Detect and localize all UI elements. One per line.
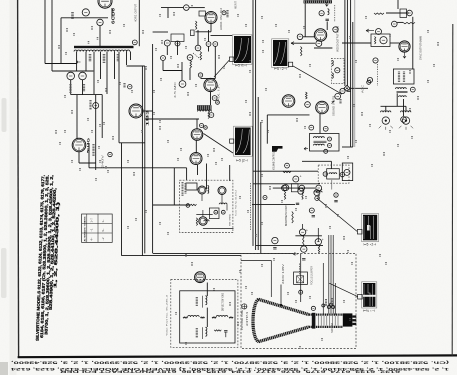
anode connection dot	[280, 304, 283, 307]
node AF junction	[285, 163, 290, 168]
video amp V4 6AW8 pentode	[314, 29, 326, 41]
mixer V2 tuner	[218, 187, 226, 195]
CRT pin terminal c	[330, 303, 333, 306]
cap C73 plus	[299, 229, 305, 235]
speaker SP2 voice coil	[401, 111, 411, 112]
video cathode node	[316, 41, 322, 47]
svg-text:VIDEO OUTPUT 6AW8: VIDEO OUTPUT 6AW8	[336, 26, 340, 52]
photo frame W4	[362, 214, 379, 242]
capacitor C35	[347, 90, 350, 91]
transformer T3 core line a	[314, 140, 327, 142]
wire sound box top	[267, 114, 309, 116]
wire sound takeoff	[189, 68, 191, 80]
waveform photo W4 vert blanking	[363, 215, 377, 241]
coil L9 winding	[198, 110, 212, 111]
wire yoke return	[122, 255, 242, 257]
node video out	[340, 88, 345, 93]
wire speaker feed drop	[396, 93, 398, 106]
label HV winding	[117, 54, 120, 62]
vert deflection coil L14	[205, 296, 207, 305]
tuner coil L3	[204, 220, 209, 221]
audio takeoff node	[335, 93, 341, 99]
svg-text:HORIZ. OUTPUT: HORIZ. OUTPUT	[134, 4, 138, 22]
stabilizer box Z1	[199, 11, 205, 16]
T4 side terminal	[410, 87, 415, 92]
callout tag W1	[229, 57, 233, 61]
T3 terminal top2	[323, 126, 328, 131]
tuner test pad c	[186, 204, 190, 208]
label under screen c	[318, 192, 320, 199]
node test point TP1	[164, 40, 170, 46]
wire HV to 1B3	[143, 110, 153, 112]
svg-text:VOLUME CONTROL: VOLUME CONTROL	[273, 152, 276, 170]
callout tag W3	[230, 139, 234, 143]
resistor R52	[403, 22, 415, 23]
wire T1 tap c	[93, 52, 95, 95]
wire mixer feed	[229, 165, 231, 181]
width coil L12 core	[197, 105, 212, 110]
node 135V	[309, 208, 314, 213]
bus wire sync 1	[350, 0, 352, 147]
node TP5	[213, 42, 218, 47]
label 117VAC	[69, 84, 71, 93]
video in node	[297, 34, 303, 40]
wire section joint	[127, 65, 145, 67]
CRT pin terminal a	[322, 304, 325, 307]
node TP2	[161, 56, 166, 61]
wire 5U4 cathode	[78, 152, 80, 163]
wire CRT pin g2	[322, 263, 324, 315]
label 6.3V winding	[89, 54, 92, 62]
CRT pin labels b	[331, 298, 333, 305]
power transformer T1 secondary winding	[74, 50, 130, 52]
dashed boost link	[334, 5, 336, 22]
bus wire AGC	[257, 97, 259, 250]
wire R52 link	[397, 21, 403, 23]
wire yoke center	[206, 308, 208, 327]
leader line W5	[329, 283, 357, 296]
RF amp V1 tuner triode	[198, 186, 206, 194]
photo W4 white gap	[367, 225, 370, 231]
wire rect drop left	[76, 95, 78, 139]
svg-text:FINE TUNING: FINE TUNING	[229, 214, 231, 226]
picture tube V14 24TP4 bell	[253, 299, 259, 341]
capacitor C71	[334, 200, 337, 201]
terminal lug T1-1	[132, 40, 137, 45]
cap C76	[301, 246, 307, 252]
svg-text:BRIGHTNESS CONT.: BRIGHTNESS CONT.	[285, 205, 288, 226]
node screen c	[316, 185, 322, 191]
cap C75	[315, 239, 321, 245]
table grid	[82, 214, 113, 242]
tuner trimmer box	[209, 208, 219, 219]
wire sync plate	[412, 17, 414, 69]
wire speaker a lead	[385, 106, 387, 111]
wire osc plate	[210, 24, 212, 32]
wire T1 tap i	[130, 52, 132, 61]
wire T1 tap g	[118, 52, 120, 143]
node spark gap	[263, 196, 267, 200]
capacitor C72	[312, 216, 315, 217]
wire yoke bus	[180, 316, 235, 318]
svg-text:SOUND I.F. 6T8: SOUND I.F. 6T8	[332, 95, 336, 116]
wire heater run	[52, 70, 93, 72]
picture tube ion trap magnet	[312, 313, 316, 329]
wire osc grid lead b	[189, 7, 205, 9]
sync node c	[407, 10, 413, 16]
tuner label rf	[185, 183, 187, 194]
damping resistor R73	[212, 317, 216, 318]
resistor R67	[318, 245, 319, 253]
waveform photo W3 vert output	[235, 128, 251, 156]
svg-text:⊢5 (2⊣: ⊢5 (2⊣	[236, 158, 248, 162]
wire AGC line	[350, 87, 368, 89]
capacitor C79	[302, 259, 305, 260]
keyer terminal	[335, 68, 340, 73]
video IF amp V5 6U8	[204, 78, 217, 91]
page border left edge	[18, 0, 19, 357]
rectifier V10 5U4G	[72, 138, 86, 152]
wire damper plate	[196, 119, 198, 129]
wire audio B+	[253, 183, 320, 185]
sound grid node	[305, 102, 311, 108]
picture tube grid cap	[311, 306, 315, 310]
svg-text:HORIZ. OSC. 6C4: HORIZ. OSC. 6C4	[219, 7, 223, 30]
CRT enclosure inner line	[241, 259, 271, 261]
damping resistor R72	[200, 317, 204, 318]
keyer winding b	[332, 73, 333, 78]
wire rect drop right	[95, 95, 97, 170]
focus jumper X mark	[297, 276, 304, 283]
tuner resistor R3	[196, 218, 197, 226]
yoke inner box	[180, 291, 235, 343]
ultor terminal	[299, 290, 303, 294]
electrolytic C62	[283, 185, 289, 191]
tuner wire f	[203, 228, 234, 230]
label V LOW	[92, 144, 94, 156]
wire diagonal to sound takeoff	[204, 134, 234, 154]
picture tube base pin 2	[352, 319, 356, 321]
picture tube base pin 1	[352, 315, 356, 317]
photo frame W2	[272, 39, 289, 68]
wire sync link 2	[390, 42, 400, 44]
label 240V	[89, 100, 91, 110]
wire T1 tap h	[126, 52, 128, 66]
trimmer C21	[175, 41, 180, 46]
wire CRT focus	[334, 283, 336, 315]
capacitor C30	[326, 19, 329, 20]
wire HV bus	[152, 44, 154, 253]
picture tube neck bottom	[309, 326, 343, 328]
wire T3 feed	[319, 114, 321, 134]
width coil L16	[205, 327, 207, 336]
svg-text:⊢5 ½⊣: ⊢5 ½⊣	[235, 64, 247, 68]
wire CRT pin k	[330, 235, 332, 315]
wire sync dotted	[377, 64, 379, 86]
svg-text:240V: 240V	[101, 154, 105, 168]
node vert in	[108, 152, 112, 156]
wire tp2 lead	[162, 61, 164, 71]
wire 5U4 side drop	[88, 143, 90, 168]
svg-text:6CD6: 6CD6	[111, 7, 116, 24]
arrow audio takeoff	[332, 101, 335, 104]
svg-text:+: +	[306, 228, 308, 232]
wire boost drop right	[317, 228, 319, 242]
noise inv resistor	[375, 37, 376, 45]
resistor box R53	[400, 9, 407, 18]
wire tp4 lead	[208, 47, 210, 52]
svg-text:AGC: AGC	[361, 85, 365, 93]
T4 core line b	[397, 92, 408, 94]
resistor R14	[196, 21, 197, 29]
tuner label ant	[182, 182, 184, 196]
tuner wire d	[196, 214, 212, 216]
transformer T3 core line b	[314, 142, 327, 144]
bus wire sync 3 grey	[354, 0, 356, 147]
quad detector dashed enclosure	[318, 165, 349, 183]
svg-text:+: +	[300, 174, 302, 178]
photo frame W5	[362, 282, 377, 308]
leader line W2 to sync	[293, 66, 342, 94]
bus wire video 1	[344, 0, 346, 86]
wire plate lead video	[326, 22, 328, 31]
wire vert out drop	[206, 283, 208, 297]
node 6C4 aux	[222, 11, 226, 15]
tuner wire a	[201, 194, 203, 201]
svg-text:PIX. I.F.: PIX. I.F.	[217, 84, 221, 102]
T4 core line a	[397, 90, 408, 92]
wire damper cathode	[195, 140, 197, 152]
wire grid row	[201, 78, 216, 80]
wire video to CRT	[197, 165, 199, 175]
resistor R62	[302, 191, 303, 199]
yoke coil core a	[202, 296, 204, 308]
wire bus to focus	[256, 245, 323, 247]
wire if row	[163, 70, 182, 72]
focus jumper inner box	[297, 276, 304, 283]
T3 terminal top	[309, 125, 314, 130]
node screen a	[282, 185, 288, 191]
capacitor C72b	[296, 203, 299, 204]
wire osc feed	[206, 164, 208, 190]
sync node a	[373, 58, 378, 63]
wire speaker b lead	[405, 106, 407, 111]
wire 5U4 out	[79, 162, 96, 164]
wire cap C81 lead	[225, 332, 227, 337]
T4 text line a	[398, 72, 400, 83]
wire det drop	[181, 62, 183, 80]
photo frame W3	[234, 126, 253, 156]
tuner wire b	[221, 195, 223, 205]
CRT socket drive V13	[190, 153, 202, 165]
picture tube base pin 3	[352, 323, 356, 325]
damper V12 6W4 (a)	[191, 129, 203, 141]
speaker SP1 voice coil	[381, 111, 391, 112]
wire cathode row	[314, 47, 332, 49]
capacitor C81	[224, 331, 227, 332]
sync node b	[367, 77, 372, 82]
fuse F1	[82, 9, 89, 16]
CRT pin terminal b	[327, 306, 330, 309]
wire bright feed	[252, 203, 295, 205]
quad coil L11	[329, 173, 337, 174]
cap C77	[200, 124, 204, 128]
arrow sync input	[366, 29, 374, 32]
yoke coil core b	[202, 327, 204, 339]
callout tag W2	[288, 62, 292, 66]
section divider wire b	[144, 66, 146, 253]
node disc	[315, 196, 319, 200]
svg-text:Yoke Part No. 95-236-3: Yoke Part No. 95-236-3	[165, 293, 168, 336]
quad terminal	[323, 172, 327, 176]
svg-text:⊢5 ⋆2⊣: ⊢5 ⋆2⊣	[274, 67, 287, 71]
T3 terminal side a	[328, 137, 332, 141]
tuner resistor R2	[189, 204, 197, 205]
phase coil L13	[399, 96, 407, 97]
svg-text:528 TK8: 528 TK8	[330, 322, 334, 332]
volume control R45 pot	[272, 146, 283, 152]
wire sound box left	[266, 115, 268, 144]
terminal HV lug 3	[209, 113, 214, 118]
peaking coil L6 winding	[328, 9, 330, 15]
resistor R66	[303, 236, 304, 247]
tuner wire c	[202, 210, 204, 216]
wire AC line	[61, 17, 108, 19]
wire boost line	[145, 118, 199, 120]
electrolytic C61 plus	[293, 176, 299, 182]
CRT pin labels	[325, 299, 327, 306]
CRT enclosure inner vertical	[270, 260, 272, 297]
svg-text:DEFLECTION YOKE: DEFLECTION YOKE	[222, 293, 224, 311]
keyer winding a	[332, 61, 333, 66]
contrast resistor R32	[301, 47, 302, 56]
wire IF bus top	[153, 31, 168, 33]
node video right	[333, 27, 338, 32]
wire AC drop	[60, 18, 62, 64]
brightness pot R65	[292, 212, 294, 224]
waveform photo W5 horiz blanking	[363, 283, 375, 307]
wire sync top	[386, 12, 409, 14]
node filament tap	[128, 85, 132, 89]
node TP4	[206, 42, 211, 47]
resistor R51	[374, 13, 384, 14]
page border right edge	[451, 24, 454, 356]
audio output transformer T4 box	[393, 69, 414, 84]
section divider wire a	[141, 66, 143, 256]
oscillator V3 tuner	[199, 217, 207, 225]
wire osc grid lead	[161, 7, 183, 9]
sound demod V7 6T8	[316, 101, 329, 114]
table cell marks	[90, 218, 106, 241]
svg-text:1–7: 1–7	[90, 218, 94, 223]
waveform photo W1 vert osc	[234, 36, 251, 63]
damping resistor R71	[183, 317, 188, 318]
tuner coil L1 antenna	[208, 186, 209, 194]
tuner pad a	[214, 210, 218, 214]
node boost	[334, 193, 338, 197]
wire quad feed	[302, 160, 331, 162]
CRT dashed enclosure	[241, 253, 356, 348]
cap C74	[272, 237, 278, 243]
node 240V	[93, 103, 99, 109]
resistor box R64	[291, 184, 298, 192]
resistor R21 4.7K	[200, 52, 202, 61]
wire T1 tap f	[114, 52, 116, 80]
photo frame W1	[232, 35, 252, 65]
wire CRT pin h1	[332, 235, 334, 315]
callout tag W5	[358, 294, 363, 299]
label WIDTH	[196, 328, 198, 338]
tuner coil L2	[219, 203, 227, 204]
wire CRT pin g1	[328, 235, 330, 315]
wire bias drop	[302, 224, 304, 229]
wire T1 tap d	[100, 52, 102, 80]
wire speaker feed	[381, 105, 407, 107]
wire horiz drive	[138, 0, 140, 46]
node screen b	[299, 185, 305, 191]
photo W5 white gap	[363, 295, 375, 297]
node grid stop	[187, 55, 193, 61]
waveform photo W2 horiz osc	[273, 40, 287, 66]
svg-text:6132, 6133, 6174, 6175, 6176,: 6132, 6133, 6174, 6175, 6176, 6177, 6184…	[60, 370, 400, 375]
svg-text:⊢½ ⋆⊣: ⊢½ ⋆⊣	[363, 309, 375, 313]
arrow T3 left	[304, 147, 308, 150]
wire osc to waveform	[211, 35, 233, 37]
picture tube base connector	[343, 313, 353, 326]
discriminator coil L10	[314, 191, 322, 192]
T3 terminal bottom	[324, 149, 328, 153]
leader line W1 to 6U8	[214, 60, 229, 77]
node osc grid	[184, 5, 190, 11]
wire quad out grey	[331, 180, 333, 190]
arrow dashed adjust	[193, 53, 199, 58]
wire phase coil	[403, 99, 405, 116]
wire focus line	[153, 252, 293, 254]
tuner shield dashed box	[180, 180, 233, 232]
label 73.5	[123, 83, 125, 88]
svg-text:(Ch. 528.38100, 1, 2, 528.3860: (Ch. 528.38100, 1, 2, 528.38600, 1, 2, 3…	[11, 361, 449, 366]
wire T1 tap e	[106, 52, 108, 95]
bus wire heater	[260, 122, 262, 253]
callout tag W4	[357, 229, 362, 234]
shield dashed box keyer	[331, 58, 344, 83]
wire focus dashed	[299, 264, 301, 276]
label 5V winding	[103, 54, 106, 63]
convergence jumper box	[342, 163, 352, 181]
picture tube bottom funnel band	[259, 327, 309, 342]
pilot terminal A	[67, 72, 75, 80]
peaking coil tap	[319, 11, 324, 16]
terminal strip TS1	[191, 30, 195, 36]
bus wire B+ 2	[255, 0, 257, 250]
transformer T3 sound IF box	[310, 134, 340, 152]
wire rectifier bus	[71, 94, 103, 96]
value labels scattered annotations	[56, 5, 438, 349]
label 25V	[339, 99, 341, 104]
wire term A down	[70, 80, 72, 95]
wire left feeder	[173, 168, 175, 205]
wire B+ feed 2	[51, 0, 53, 71]
speaker SP2 cone	[399, 117, 413, 130]
wire bias row	[295, 235, 322, 237]
audio output transformer T4 winding	[396, 88, 407, 89]
wire vert bus drop	[186, 168, 188, 180]
capacitor C74 plates	[273, 248, 276, 249]
dashed AGC drop	[249, 183, 251, 231]
horiz yoke coil L15a	[188, 315, 200, 316]
wire sync box bottom	[342, 146, 353, 148]
HV rectifier V11 1B3	[129, 104, 143, 118]
